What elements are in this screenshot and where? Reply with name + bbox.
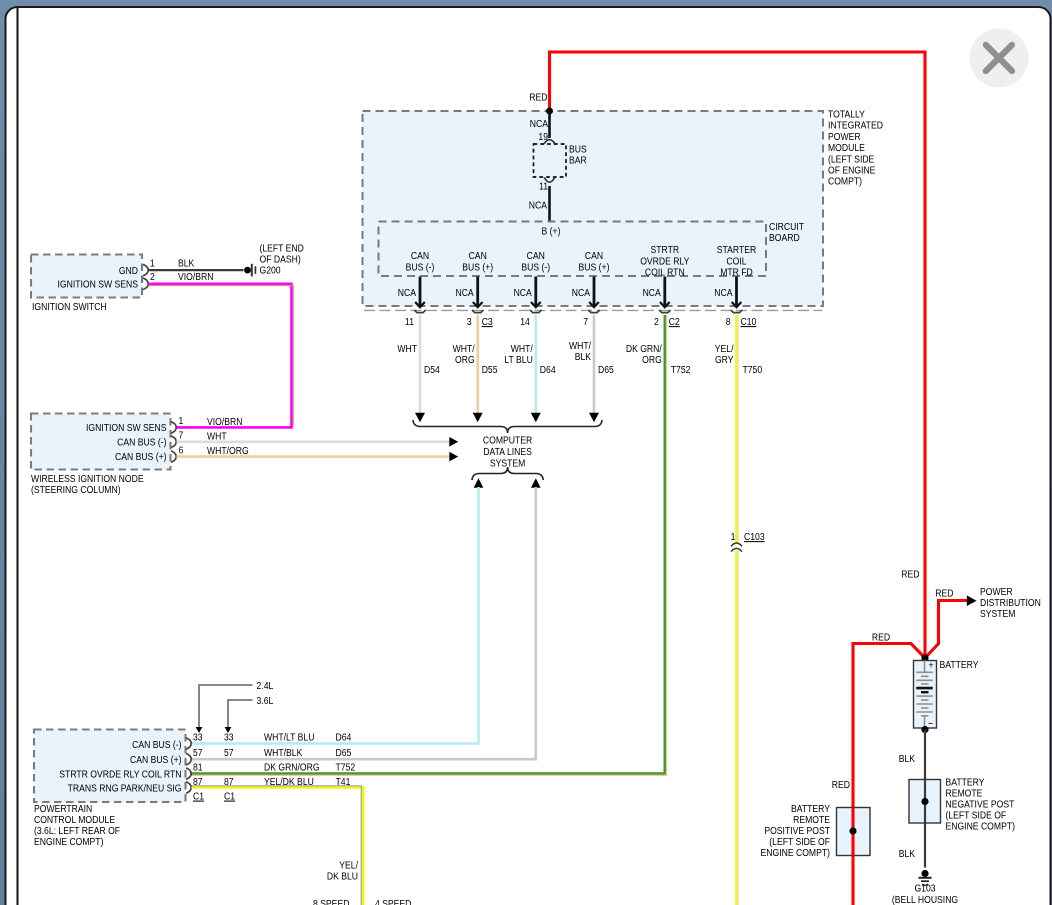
svg-text:GND: GND [119, 265, 138, 277]
svg-text:ENGINE COMPT): ENGINE COMPT) [946, 821, 1015, 833]
svg-text:3: 3 [467, 316, 472, 328]
svg-text:IGNITION SW SENS: IGNITION SW SENS [86, 422, 166, 434]
svg-text:D54: D54 [424, 364, 440, 376]
wire NCA pin 3 out [455, 277, 482, 308]
svg-text:ENGINE COMPT): ENGINE COMPT) [34, 836, 103, 848]
connector arcs under TIPM [364, 309, 822, 311]
connector arc bus bar bottom [544, 177, 555, 182]
node positive post terminal [849, 827, 856, 834]
node junction at TIPM top [546, 108, 553, 115]
wire BLK through negative post [924, 780, 926, 824]
wire NCA 19 to bus bar [548, 111, 551, 138]
svg-text:D64: D64 [540, 364, 556, 376]
svg-text:NCA: NCA [529, 200, 548, 212]
svg-text:BLK: BLK [178, 258, 195, 270]
svg-text:(BELL HOUSING: (BELL HOUSING [892, 894, 958, 905]
svg-text:57: 57 [224, 747, 234, 759]
svg-text:DK BLU: DK BLU [327, 871, 358, 883]
wire bus bar to circuit board [548, 186, 551, 222]
svg-text:D65: D65 [598, 364, 614, 376]
svg-text:C3: C3 [482, 316, 493, 328]
svg-text:TRANS RNG PARK/NEU SIG: TRANS RNG PARK/NEU SIG [68, 783, 182, 795]
svg-text:2.4L: 2.4L [257, 680, 274, 692]
svg-text:ORG: ORG [642, 354, 662, 366]
svg-text:NCA: NCA [455, 287, 474, 299]
svg-text:COMPT): COMPT) [828, 176, 862, 188]
close button [970, 29, 1029, 88]
svg-text:IGNITION SW SENS: IGNITION SW SENS [58, 279, 138, 291]
wire YEL/GRY T750 [735, 315, 738, 544]
wire NCA pin 8 out [714, 277, 741, 308]
svg-text:3.6L: 3.6L [257, 695, 274, 707]
svg-text:(STEERING COLUMN): (STEERING COLUMN) [31, 484, 121, 496]
svg-text:33: 33 [224, 732, 234, 744]
svg-text:MODULE: MODULE [828, 142, 865, 154]
battery remote negative post box [909, 780, 941, 824]
svg-text:8: 8 [726, 316, 731, 328]
svg-text:8 SPEED: 8 SPEED [313, 898, 350, 905]
svg-text:C2: C2 [669, 316, 680, 328]
svg-text:NCA: NCA [643, 287, 662, 299]
svg-text:B (+): B (+) [542, 226, 561, 238]
wire WHT to computer data lines [177, 440, 451, 443]
svg-text:INTEGRATED: INTEGRATED [828, 120, 883, 132]
svg-text:BUS (-): BUS (-) [521, 262, 550, 274]
inline connector C103 [731, 543, 742, 552]
svg-text:81: 81 [193, 762, 203, 774]
svg-text:OF ENGINE: OF ENGINE [828, 165, 875, 177]
svg-text:CAN BUS (-): CAN BUS (-) [117, 437, 166, 449]
battery remote positive post box [837, 808, 871, 856]
svg-text:GRY: GRY [715, 354, 734, 366]
pin bracket 57 [186, 754, 191, 765]
2.4L callout [196, 680, 274, 733]
ground G103 symbol [919, 870, 932, 886]
svg-text:BATTERY: BATTERY [940, 659, 980, 671]
svg-text:7: 7 [583, 316, 588, 328]
svg-text:RED: RED [935, 588, 953, 600]
svg-text:BUS (-): BUS (-) [406, 262, 435, 274]
pin bracket 81 [186, 768, 191, 779]
pin bracket 33 [186, 738, 191, 749]
svg-text:DATA LINES: DATA LINES [483, 446, 532, 458]
pin bracket IGN SW SENS [143, 278, 148, 289]
wire WHT/LT BLU to PCM 33 [474, 478, 484, 488]
svg-text:G103: G103 [914, 883, 935, 895]
svg-text:POWER: POWER [828, 131, 861, 143]
wire NCA pin 11 out [398, 277, 425, 308]
PCM box [34, 730, 186, 803]
svg-text:11: 11 [539, 181, 548, 193]
wire BLK to G200 [149, 269, 244, 271]
3.6L callout [225, 695, 274, 733]
svg-text:C1: C1 [224, 791, 235, 803]
wire WHT D54 [419, 315, 422, 413]
wire VIO/BRN ignition switch to WIN [149, 284, 292, 428]
pin bracket GND [143, 264, 148, 275]
svg-text:BLK: BLK [899, 753, 916, 765]
svg-text:VIO/BRN: VIO/BRN [178, 271, 214, 283]
svg-text:4 SPEED: 4 SPEED [375, 898, 412, 905]
svg-text:(LEFT SIDE: (LEFT SIDE [828, 154, 874, 166]
svg-text:D55: D55 [482, 364, 498, 376]
svg-text:RED: RED [872, 632, 890, 644]
svg-text:CAN BUS (+): CAN BUS (+) [130, 754, 182, 766]
svg-text:STRTR OVRDE RLY COIL RTN: STRTR OVRDE RLY COIL RTN [59, 769, 181, 781]
svg-text:T752: T752 [336, 762, 356, 774]
wire YEL/DK BLU T41 [192, 788, 364, 905]
wire WHT/BLK to PCM 57 [531, 478, 541, 488]
svg-text:CAN: CAN [527, 250, 545, 262]
svg-text:T752: T752 [671, 364, 691, 376]
pin bracket 6 [171, 451, 176, 462]
svg-text:CAN: CAN [469, 250, 487, 262]
battery B1 [914, 660, 937, 730]
svg-text:D65: D65 [336, 747, 352, 759]
pin bracket 7 [171, 436, 176, 447]
svg-text:1: 1 [178, 415, 183, 427]
svg-text:1: 1 [150, 258, 155, 270]
svg-text:1: 1 [731, 531, 736, 543]
svg-text:WHT: WHT [397, 343, 417, 355]
svg-text:C1: C1 [193, 791, 204, 803]
wire WHT/ORG D55 [476, 315, 479, 413]
svg-text:D64: D64 [336, 732, 352, 744]
svg-text:STARTER: STARTER [717, 244, 757, 256]
wire WHT/LT BLU D64 [534, 315, 537, 413]
svg-text:WHT/BLK: WHT/BLK [264, 747, 303, 759]
svg-text:C10: C10 [741, 316, 757, 328]
svg-text:33: 33 [193, 732, 203, 744]
svg-text:STRTR: STRTR [651, 244, 680, 256]
bus bar box [534, 144, 567, 177]
ground G200 symbol [244, 264, 255, 277]
svg-text:CAN BUS (+): CAN BUS (+) [115, 451, 167, 463]
svg-text:CAN: CAN [411, 250, 429, 262]
svg-text:BOARD: BOARD [769, 232, 800, 244]
TIPM module box [363, 111, 824, 306]
brace computer data lines bottom [472, 467, 543, 480]
svg-text:2: 2 [150, 271, 155, 283]
wire WHT/BLK D65 [593, 315, 596, 413]
node battery negative junction [921, 726, 928, 733]
svg-text:BUS (+): BUS (+) [579, 262, 610, 274]
svg-text:VIO/BRN: VIO/BRN [207, 416, 243, 428]
svg-text:IGNITION SWITCH: IGNITION SWITCH [32, 301, 107, 313]
brace computer data lines top [413, 420, 602, 433]
svg-text:LT BLU: LT BLU [504, 354, 533, 366]
svg-text:SYSTEM: SYSTEM [980, 608, 1015, 620]
ignition switch box [31, 255, 142, 298]
wire RED through positive post [851, 808, 854, 856]
wire NCA pin 14 out [514, 277, 541, 308]
svg-text:2: 2 [654, 316, 659, 328]
svg-text:CAN: CAN [585, 250, 603, 262]
svg-text:CAN BUS (-): CAN BUS (-) [132, 739, 181, 751]
svg-text:WHT/LT BLU: WHT/LT BLU [264, 732, 315, 744]
svg-text:DK GRN/ORG: DK GRN/ORG [264, 762, 320, 774]
wire NCA pin 7 out [572, 277, 599, 308]
node negative post terminal [921, 798, 928, 805]
svg-text:NCA: NCA [514, 287, 533, 299]
svg-text:−: − [928, 718, 933, 730]
svg-text:NCA: NCA [530, 118, 549, 130]
svg-text:RED: RED [832, 779, 850, 791]
circuit board box [379, 222, 767, 277]
svg-text:7: 7 [178, 430, 183, 442]
pin bracket 87 [186, 782, 191, 793]
svg-text:ORG: ORG [455, 354, 475, 366]
node battery positive junction [921, 654, 928, 661]
diagram left frame edge [17, 8, 19, 905]
svg-text:ENGINE COMPT): ENGINE COMPT) [761, 847, 830, 859]
svg-text:+: + [928, 660, 933, 672]
connector arc bus bar top [544, 140, 555, 144]
svg-text:COMPUTER: COMPUTER [483, 435, 532, 447]
svg-text:BLK: BLK [899, 848, 916, 860]
wire DK GRN/ORG T752 [190, 315, 665, 774]
wire RED branch to positive post [853, 644, 925, 905]
svg-text:G200: G200 [259, 265, 280, 277]
pin bracket 1 [171, 422, 176, 433]
wire WHT/ORG to computer data lines [177, 455, 451, 458]
svg-text:NCA: NCA [714, 287, 733, 299]
wire BLK battery to G103 [924, 730, 926, 868]
wire RED main feed [550, 52, 926, 656]
svg-text:14: 14 [520, 316, 530, 328]
svg-text:BLK: BLK [575, 351, 592, 363]
svg-text:57: 57 [193, 747, 203, 759]
svg-text:TOTALLY: TOTALLY [828, 109, 865, 121]
wireless ignition node box [31, 414, 171, 470]
wire NCA pin 2 out [643, 277, 670, 308]
svg-text:11: 11 [405, 316, 414, 328]
svg-text:C103: C103 [744, 531, 765, 543]
svg-text:BAR: BAR [569, 155, 587, 167]
svg-text:RED: RED [901, 569, 919, 581]
svg-text:NCA: NCA [572, 287, 591, 299]
wire RED branch to power distribution [925, 601, 967, 659]
svg-text:NCA: NCA [398, 287, 417, 299]
svg-text:6: 6 [178, 445, 183, 457]
svg-text:T750: T750 [743, 364, 763, 376]
svg-text:RED: RED [529, 92, 547, 104]
svg-text:BUS (+): BUS (+) [462, 262, 493, 274]
TIPM label [828, 109, 883, 188]
